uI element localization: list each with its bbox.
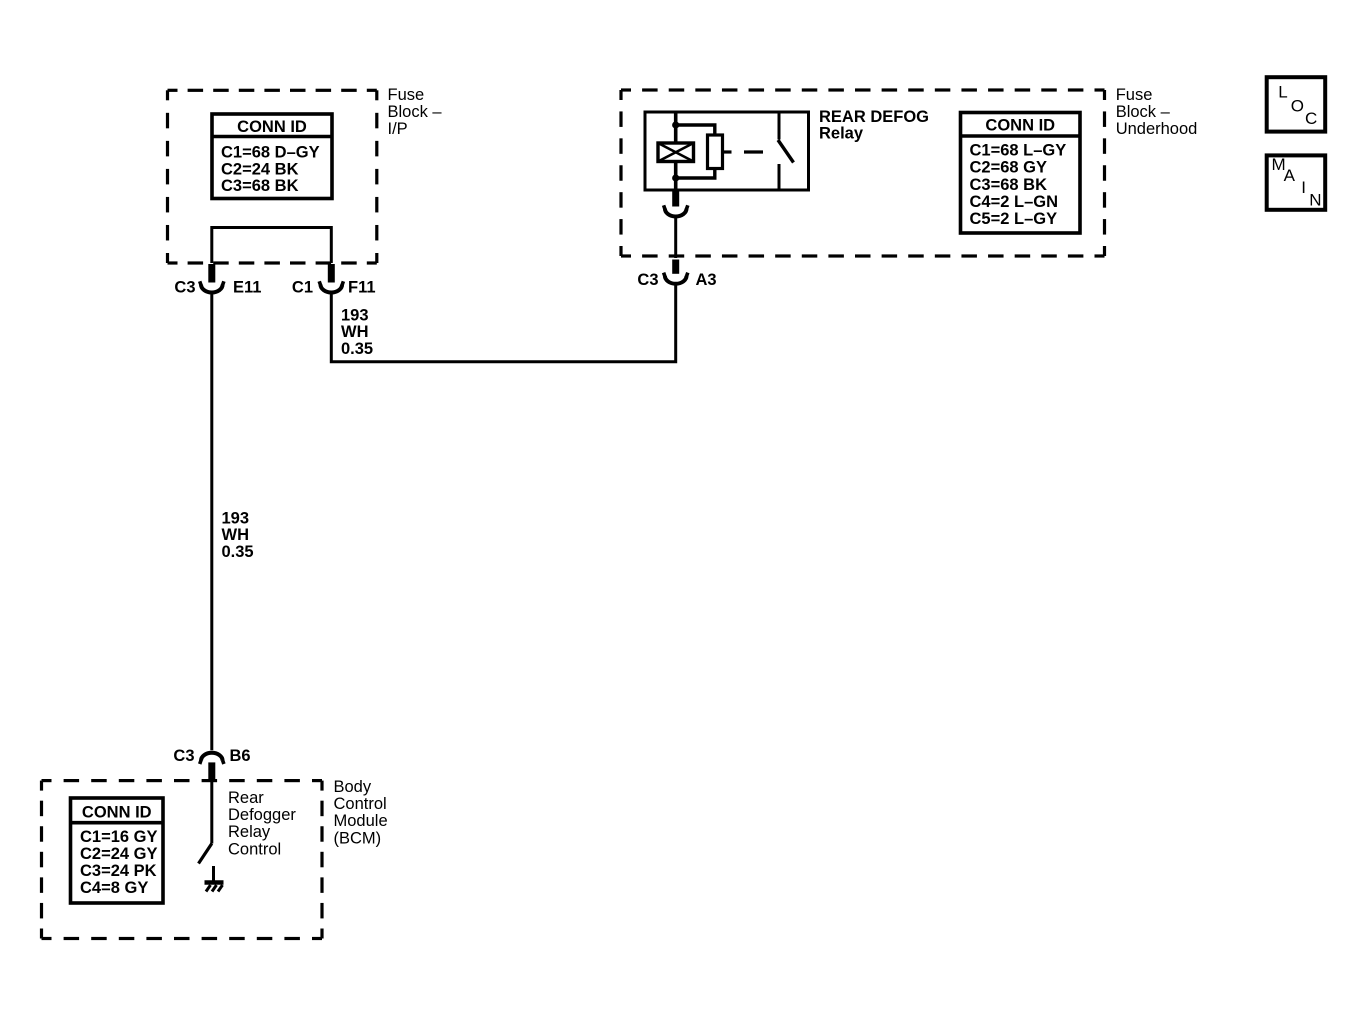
svg-text:CONN ID: CONN ID bbox=[237, 118, 307, 136]
svg-text:N: N bbox=[1309, 191, 1321, 210]
label Fuse Block - Underhood bbox=[1116, 86, 1198, 138]
svg-text:C3: C3 bbox=[173, 747, 194, 765]
svg-text:Relay: Relay bbox=[819, 125, 864, 143]
svg-text:C1=16 GY: C1=16 GY bbox=[80, 828, 158, 846]
svg-text:CONN ID: CONN ID bbox=[82, 804, 152, 822]
wire 193 WH from E11 to B6 bbox=[210, 293, 213, 751]
pin stub E11 bbox=[208, 264, 215, 283]
wire relay to A3 bbox=[674, 217, 677, 259]
fuse block Underhood enclosure bbox=[621, 90, 1105, 256]
svg-text:Fuse: Fuse bbox=[388, 86, 425, 104]
svg-text:C3: C3 bbox=[174, 279, 195, 297]
svg-text:REAR DEFOG: REAR DEFOG bbox=[819, 108, 929, 126]
switch (BCM output driver) bbox=[199, 844, 212, 864]
svg-text:0.35: 0.35 bbox=[341, 340, 373, 358]
wire label 193 WH 0.35 (vertical run) bbox=[222, 509, 254, 561]
svg-text:I: I bbox=[1301, 178, 1306, 197]
svg-text:A: A bbox=[1284, 166, 1296, 185]
svg-text:(BCM): (BCM) bbox=[334, 829, 382, 847]
svg-text:A3: A3 bbox=[696, 271, 717, 289]
ground stem bbox=[212, 866, 215, 882]
svg-text:B6: B6 bbox=[230, 747, 251, 765]
svg-text:Block –: Block – bbox=[1116, 103, 1171, 121]
svg-text:E11: E11 bbox=[233, 279, 261, 297]
svg-text:I/P: I/P bbox=[388, 120, 408, 138]
relay K1 REAR DEFOG outline bbox=[645, 112, 809, 190]
relay switch contacts bbox=[778, 112, 794, 190]
LOC page marker box bbox=[1267, 77, 1326, 131]
svg-text:C2=24 GY: C2=24 GY bbox=[80, 845, 158, 863]
connector C1 F11 bbox=[319, 281, 343, 292]
svg-text:C5=2 L–GY: C5=2 L–GY bbox=[970, 210, 1058, 228]
svg-text:C1=68 D–GY: C1=68 D–GY bbox=[221, 144, 320, 162]
ground (chassis) bbox=[205, 883, 224, 892]
connector C3 B6 bbox=[200, 753, 224, 764]
svg-text:Module: Module bbox=[334, 812, 388, 830]
pin stub (relay output) bbox=[672, 191, 679, 207]
relay coil wire bbox=[674, 112, 678, 143]
svg-text:Block –: Block – bbox=[388, 103, 443, 121]
svg-text:C2=68 GY: C2=68 GY bbox=[970, 159, 1048, 177]
body control module enclosure bbox=[42, 781, 323, 939]
connector C3 A3 bbox=[664, 273, 688, 284]
MAIN page marker box bbox=[1267, 155, 1326, 210]
svg-text:C1=68 L–GY: C1=68 L–GY bbox=[970, 142, 1067, 160]
mechanical link (dashed actuator line) bbox=[723, 150, 732, 153]
svg-text:C: C bbox=[1305, 109, 1317, 128]
internal jumper wire E11 to F11 bbox=[212, 228, 331, 264]
svg-text:0.35: 0.35 bbox=[222, 543, 254, 561]
svg-text:Rear: Rear bbox=[228, 789, 264, 807]
svg-text:C4=8 GY: C4=8 GY bbox=[80, 879, 148, 897]
svg-text:WH: WH bbox=[222, 526, 250, 544]
pin stub A3 bbox=[672, 260, 679, 274]
svg-text:O: O bbox=[1291, 96, 1304, 115]
label Fuse Block - I/P bbox=[388, 86, 443, 138]
connector (relay socket) bbox=[664, 205, 688, 216]
label Body Control Module (BCM) bbox=[334, 778, 388, 847]
relay coil (box with X) bbox=[658, 143, 694, 162]
svg-text:Control: Control bbox=[334, 795, 387, 813]
svg-text:Body: Body bbox=[334, 778, 372, 796]
svg-text:C3=24 PK: C3=24 PK bbox=[80, 862, 157, 880]
svg-text:C3: C3 bbox=[637, 271, 658, 289]
pin stub F11 bbox=[328, 264, 335, 283]
svg-text:Underhood: Underhood bbox=[1116, 120, 1198, 138]
svg-text:C1: C1 bbox=[292, 279, 313, 297]
svg-text:Relay: Relay bbox=[228, 823, 271, 841]
svg-text:193: 193 bbox=[222, 509, 250, 527]
resistor (relay suppression) bbox=[708, 135, 723, 169]
svg-text:C2=24 BK: C2=24 BK bbox=[221, 160, 299, 178]
junction dot (coil bottom) bbox=[672, 174, 679, 181]
connector ID table (Fuse Block I/P) bbox=[212, 114, 332, 199]
wire 193 WH from F11 to A3 bbox=[331, 284, 675, 362]
junction dot (coil top) bbox=[672, 121, 679, 128]
svg-text:Control: Control bbox=[228, 840, 281, 858]
svg-text:C3=68 BK: C3=68 BK bbox=[221, 177, 299, 195]
label Rear Defogger Relay Control bbox=[228, 789, 296, 858]
connector ID table (Fuse Block Underhood) bbox=[961, 113, 1081, 234]
pin stub B6 bbox=[208, 762, 215, 780]
wire B6 to driver switch bbox=[210, 781, 213, 844]
resistor branch wire bbox=[676, 125, 715, 135]
svg-text:CONN ID: CONN ID bbox=[985, 117, 1055, 135]
fuse block I/P enclosure bbox=[168, 90, 377, 263]
wire label 193 WH 0.35 (horizontal run) bbox=[341, 306, 373, 358]
svg-text:193: 193 bbox=[341, 306, 369, 324]
label REAR DEFOG Relay bbox=[819, 108, 929, 143]
svg-text:WH: WH bbox=[341, 323, 369, 341]
svg-text:Defogger: Defogger bbox=[228, 806, 296, 824]
connector ID table (BCM) bbox=[71, 798, 164, 903]
connector C3 E11 bbox=[200, 281, 224, 292]
svg-text:F11: F11 bbox=[348, 279, 376, 297]
svg-text:C4=2 L–GN: C4=2 L–GN bbox=[970, 193, 1059, 211]
svg-text:Fuse: Fuse bbox=[1116, 86, 1153, 104]
svg-text:L: L bbox=[1278, 83, 1287, 102]
svg-text:C3=68 BK: C3=68 BK bbox=[970, 176, 1048, 194]
